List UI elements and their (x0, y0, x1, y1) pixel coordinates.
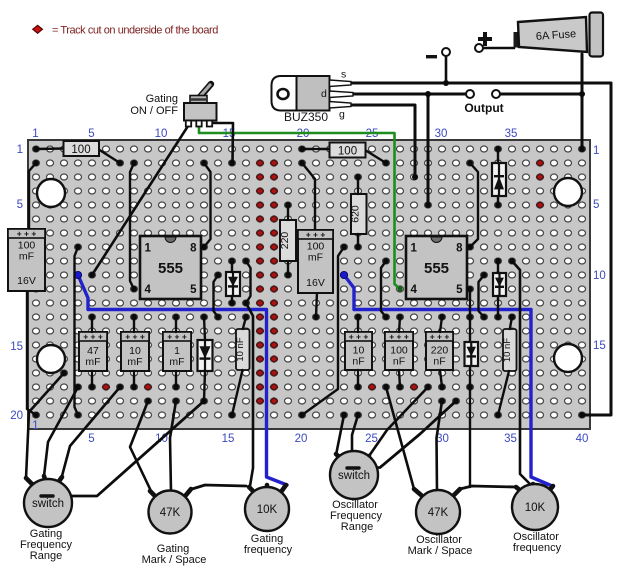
wire diode D5 bottom to pots junction (469, 366, 471, 487)
wire D4 leads (497, 261, 499, 317)
wire C7 leads (399, 317, 400, 387)
svg-text:Range: Range (341, 521, 373, 533)
wire R2 left lead (302, 148, 330, 150)
svg-text:8: 8 (190, 243, 197, 255)
track cut dot col25 row18 (368, 384, 375, 391)
capacitor C2 100mF 16V (298, 230, 333, 294)
track cut dot col28 row18 (410, 384, 417, 391)
wire fuse to board top rail (581, 54, 584, 149)
capacitor C3 47mF (79, 332, 107, 372)
op-amp U1 555 timer (140, 236, 201, 299)
wire col30 row19 to 47K osc middle (437, 401, 443, 492)
svg-text:47K: 47K (160, 507, 181, 519)
capacitor C9 10nF vertical (235, 329, 250, 370)
svg-text:frequency: frequency (244, 544, 293, 556)
wire col4 row8 to row20 (75, 247, 79, 415)
minus terminal (426, 48, 450, 58)
wire C6 leads (357, 317, 359, 387)
svg-text:8: 8 (456, 243, 463, 255)
svg-text:20: 20 (295, 433, 308, 445)
wire D3 leads (497, 149, 499, 205)
capacitor C1 100mF 16V (8, 229, 45, 292)
wire R4 leads (287, 205, 289, 275)
capacitor C6 10nF (345, 332, 372, 371)
wire source pin to right rail (351, 83, 611, 415)
svg-text:555: 555 (424, 260, 449, 277)
label gating frequency (244, 533, 293, 556)
label output (464, 101, 503, 115)
svg-text:1: 1 (593, 145, 599, 157)
plus terminal (475, 32, 492, 52)
fuse F1 6A (514, 13, 604, 57)
svg-text:Mark / Space: Mark / Space (142, 554, 207, 566)
track cut dot col9 row18 (144, 384, 151, 391)
wire drain pin to output terminal (353, 93, 466, 96)
svg-text:5: 5 (88, 433, 94, 445)
svg-text:Gating: Gating (146, 93, 178, 105)
svg-text:mF: mF (308, 252, 323, 264)
mounting hole bottom-right (554, 344, 582, 372)
wire toggle right pin to col15 row2 (212, 123, 233, 163)
op-amp U2 555 timer (406, 236, 467, 299)
svg-text:switch: switch (338, 470, 370, 482)
svg-text:nF: nF (393, 356, 405, 368)
wire col26 row9 to row13 (381, 261, 386, 317)
diode D2 (198, 340, 213, 371)
wire col14 row10 to row13 (214, 275, 219, 317)
svg-text:5: 5 (456, 284, 463, 296)
wire C10 bottom lead (498, 371, 509, 415)
wire col23 row20 to osc switch left (336, 415, 344, 455)
wire C4 leads (133, 317, 135, 387)
track cut dots column 18 (270, 160, 277, 405)
svg-text:BUZ350: BUZ350 (284, 110, 328, 124)
svg-text:4: 4 (411, 284, 418, 296)
transistor Q1 BUZ350 (272, 69, 354, 125)
svg-text:+ + +: + + + (306, 230, 326, 240)
svg-text:frequency: frequency (513, 542, 562, 554)
svg-text:25: 25 (365, 433, 378, 445)
mounting hole top-right (554, 178, 582, 206)
diode D4 (493, 273, 506, 296)
svg-text:10 nF: 10 nF (502, 338, 513, 362)
svg-text:16V: 16V (17, 275, 36, 287)
svg-text:5: 5 (17, 199, 23, 211)
svg-text:mF: mF (85, 356, 100, 368)
svg-text:Output: Output (464, 101, 503, 115)
wire col13 row2 to IC1 pin8 (204, 163, 211, 247)
resistor R4 220 (279, 220, 296, 261)
svg-text:1: 1 (411, 243, 418, 255)
svg-text:+ + +: + + + (125, 332, 145, 342)
column labels top (32, 128, 517, 140)
blue terminal col23 row10 (340, 271, 347, 278)
wire capacitor C1 bottom (27, 291, 36, 415)
wire col4 row18 to switch pot top (44, 387, 78, 476)
legend track-cut symbol (33, 25, 43, 33)
switch S1 gating toggle (184, 84, 217, 127)
svg-text:30: 30 (435, 128, 448, 140)
wire R3 leads (357, 177, 359, 247)
svg-text:35: 35 (505, 128, 518, 140)
row labels left (10, 144, 23, 422)
diode D1 (226, 272, 240, 296)
green wire gating switch to IC2 (199, 124, 400, 289)
svg-text:10K: 10K (525, 502, 546, 514)
svg-text:15: 15 (222, 433, 235, 445)
blue wire oscillator frequency (344, 275, 551, 486)
wire col33 row10 to row13 (479, 275, 485, 317)
wire R2 right lead (365, 150, 386, 163)
resistor R1 100 (64, 141, 100, 156)
svg-text:20: 20 (10, 410, 23, 422)
wire output terminal to fuse rail (500, 93, 582, 96)
svg-text:1: 1 (17, 144, 23, 156)
stripboard body (28, 140, 590, 429)
mounting hole top-left (37, 179, 65, 207)
wire output branch into board (427, 94, 430, 205)
wire C9 top lead (243, 317, 246, 329)
potentiometer VR6 10K (oscillator frequency) (512, 484, 558, 530)
diode D5 (465, 342, 479, 366)
wire col32 row2 to IC2 pin8 (470, 163, 478, 247)
potentiometer VR4 switch (oscillator frequency range) (330, 451, 378, 499)
svg-text:35: 35 (504, 433, 517, 445)
svg-text:5: 5 (190, 284, 197, 296)
track cut dot col6 row18 (102, 384, 109, 391)
blue terminal col4 row10 (74, 271, 81, 278)
wire col28 row18 to osc switch right (369, 387, 428, 456)
svg-text:Range: Range (30, 550, 62, 562)
svg-text:switch: switch (32, 498, 64, 510)
svg-text:g: g (339, 109, 345, 121)
wire capacitor C2 top (302, 163, 315, 230)
wire C9 bottom lead (232, 370, 243, 415)
wire capacitor C1 top (29, 163, 36, 229)
legend text (52, 25, 218, 37)
wire C8 leads (440, 317, 442, 387)
svg-text:mF: mF (127, 356, 142, 368)
svg-text:Mark / Space: Mark / Space (408, 545, 473, 557)
label gating on/off (130, 93, 178, 117)
diode D3 (492, 163, 506, 196)
svg-text:100: 100 (71, 144, 90, 156)
mounting hole bottom-left (37, 345, 65, 373)
svg-text:10: 10 (155, 128, 168, 140)
wire gate pin into board (351, 105, 415, 177)
svg-text:10: 10 (593, 270, 606, 282)
label gating frequency range (20, 528, 72, 562)
wire col11 row19 to 47K middle (170, 401, 176, 492)
capacitor C10 10nF vertical (502, 329, 517, 371)
track cut dots column 17 (256, 160, 263, 405)
track cut dots col37 rows 2 3 5 (536, 160, 543, 209)
wire osc switch wiper to col31 row19 (348, 401, 456, 468)
svg-text:nF: nF (433, 356, 445, 368)
label oscillator frequency range (330, 499, 382, 533)
svg-text:16V: 16V (306, 277, 325, 289)
wire col32 row11 to diode D5 (469, 289, 471, 342)
wire capacitor C2 bottom (316, 292, 317, 317)
wire col3 row17 to switch pot left (26, 373, 64, 478)
capacitor C8 220nF (426, 332, 453, 371)
wire col16 row12 to pot 10K left (246, 303, 253, 486)
svg-text:1: 1 (32, 420, 38, 432)
column labels bottom (32, 420, 588, 445)
green wire end dot (397, 286, 402, 291)
row labels right (593, 145, 606, 352)
potentiometer VR5 47K (oscillator mark/space) (414, 489, 460, 534)
svg-text:10 nF: 10 nF (235, 337, 246, 361)
svg-text:s: s (341, 69, 346, 81)
wire col35 row9 to pot 10K osc middle (512, 261, 530, 484)
capacitor C5 1mF (163, 332, 191, 372)
svg-text:d: d (321, 88, 327, 100)
capacitor C4 10mF (121, 332, 149, 372)
wire C5 leads (175, 317, 177, 387)
svg-text:4: 4 (145, 284, 152, 296)
label oscillator mark/space (408, 534, 473, 557)
svg-text:1: 1 (145, 243, 152, 255)
wire col24 row20 to osc switch middle (352, 415, 358, 452)
potentiometer VR1 switch (gating frequency range) (24, 476, 72, 527)
svg-text:10K: 10K (257, 504, 278, 516)
svg-text:+ + +: + + + (167, 332, 187, 342)
blue wire gating frequency (78, 275, 287, 485)
svg-text:mF: mF (169, 356, 184, 368)
wire D1 leads (231, 261, 233, 303)
svg-text:620: 620 (350, 205, 362, 223)
wire col8 row2 to row11 (130, 163, 134, 289)
svg-text:15: 15 (593, 340, 606, 352)
svg-text:15: 15 (10, 341, 23, 353)
svg-text:+ + +: + + + (17, 229, 37, 239)
wire col7 row18 to switch pot right (62, 387, 120, 476)
wire R1 left lead (36, 147, 63, 150)
wire 47K osc right to 10K osc left (460, 486, 516, 489)
wire toggle left pin diagonal to col5 row10 (92, 126, 188, 275)
wire col9 row19 to 47K left (130, 401, 151, 491)
wire minus terminal drop (445, 56, 448, 83)
svg-text:555: 555 (158, 260, 183, 277)
wire R1 right lead (98, 149, 120, 163)
capacitor C7 100nF (385, 332, 413, 371)
svg-text:= Track cut on underside of th: = Track cut on underside of the board (52, 25, 218, 37)
wire C3 leads (91, 317, 93, 387)
svg-text:220: 220 (279, 232, 291, 250)
output terminals (466, 90, 500, 98)
wire C10 top lead (510, 317, 512, 329)
label oscillator frequency (513, 531, 562, 554)
solder junction dots (33, 80, 585, 418)
potentiometer VR3 10K (gating frequency) (245, 485, 289, 531)
svg-text:100: 100 (338, 146, 357, 158)
resistor R3 620 (350, 194, 367, 234)
wire 47K right to 10K left (192, 485, 246, 489)
wire col16 row9 to row12 (246, 261, 251, 303)
wire switch pot wiper to col13 row19 (42, 401, 204, 496)
resistor R2 100 (330, 143, 366, 158)
wire plus terminal to fuse (483, 47, 514, 50)
svg-text:40: 40 (576, 433, 589, 445)
svg-text:nF: nF (352, 356, 364, 368)
svg-text:mF: mF (19, 251, 34, 263)
svg-text:47K: 47K (428, 507, 449, 519)
svg-text:5: 5 (593, 199, 599, 211)
svg-text:1: 1 (32, 128, 38, 140)
wire col26 row18 to 47K osc left (386, 387, 414, 489)
svg-text:+ + +: + + + (83, 332, 103, 342)
wire col23 row8 to col20 row20 (302, 247, 344, 415)
svg-text:ON / OFF: ON / OFF (130, 105, 178, 117)
potentiometer VR2 47K (gating mark/space) (149, 489, 192, 534)
wire D2 leads (204, 317, 205, 401)
label gating mark/space (142, 543, 207, 566)
svg-text:5: 5 (88, 128, 94, 140)
